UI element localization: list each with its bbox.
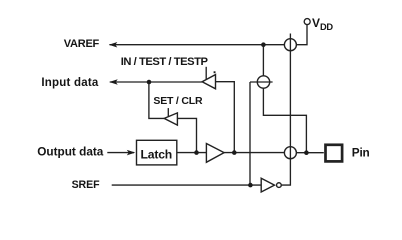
- analog switch C3 on pin line: [284, 147, 296, 159]
- junction dot on VAREF line: [261, 42, 266, 47]
- wire enable stub T1: [205, 67, 207, 81]
- wire output data line into latch: [107, 152, 134, 154]
- wire C3 right to Pin box: [297, 152, 324, 154]
- wire C2 bottom then right then down to pin-line junction: [263, 88, 306, 153]
- svg-text:IN / TEST / TESTP: IN / TEST / TESTP: [121, 56, 209, 68]
- wire circle C1 right to VDD corner: [297, 25, 308, 45]
- inverter T4 (SREF, points right): [261, 178, 274, 192]
- wire from input-data junction down to SET/CLR tip: [149, 82, 164, 118]
- svg-text:Input data: Input data: [41, 77, 99, 89]
- wire latch to buffer T3: [177, 152, 207, 154]
- VDD terminal circle: [304, 19, 310, 25]
- output buffer T3 (points right): [206, 144, 224, 163]
- arrowhead Output data (points right): [127, 150, 136, 156]
- wire T3 output to circle C3: [224, 152, 284, 154]
- wire enable stub T2: [167, 108, 169, 117]
- wire stub above C1: [289, 34, 291, 51]
- wire through C3 down to inverter corner: [281, 147, 290, 185]
- wire V4 vertical x=250 from C2 bar to SREF: [249, 82, 251, 185]
- analog switch C2: [257, 76, 269, 88]
- junction dot on SREF line: [248, 183, 253, 188]
- svg-text:SET / CLR: SET / CLR: [153, 95, 203, 107]
- svg-text:Output data: Output data: [37, 145, 104, 159]
- svg-text:SREF: SREF: [72, 179, 100, 191]
- svg-text:Pin: Pin: [352, 146, 370, 160]
- wire V3 from VAREF junction to C2 top: [262, 45, 264, 76]
- svg-text:V: V: [312, 16, 320, 30]
- wire bar through switch C2: [250, 81, 273, 83]
- wire SREF horizontal: [112, 184, 262, 186]
- analog switch C1 on VAREF line: [284, 39, 296, 51]
- junction dot right of C3: [304, 150, 309, 155]
- Latch box: [137, 140, 177, 165]
- SET/CLR buffer T2 (points left): [164, 113, 177, 125]
- svg-text:Latch: Latch: [141, 147, 173, 161]
- wire V2 vertical x=290 between C1 and C3: [289, 51, 291, 147]
- wire VAREF horizontal: [110, 44, 285, 46]
- svg-text:VAREF: VAREF: [64, 38, 100, 50]
- arrowhead Input data (points left): [109, 79, 118, 85]
- inverter bubble: [277, 183, 282, 188]
- tri-state input buffer T1 (IN/TEST/TESTP, points left): [202, 75, 215, 89]
- junction dot latch output: [194, 150, 199, 155]
- arrowhead VAREF (points left): [109, 42, 118, 48]
- wire input data horizontal: [110, 81, 202, 83]
- junction dot on input data line: [147, 80, 152, 85]
- speck after TESTP: [214, 71, 216, 73]
- Pin box: [326, 145, 343, 162]
- wire buffer T1 output to corner down: [216, 82, 235, 153]
- junction dot T3 output: [232, 150, 237, 155]
- svg-text:DD: DD: [320, 22, 333, 32]
- wire T2 input from right corner down to latch output junction: [177, 118, 196, 152]
